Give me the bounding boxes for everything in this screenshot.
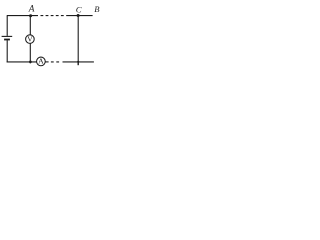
ammeter U2 circle xyxy=(37,57,46,66)
wire slider C lower stub xyxy=(77,61,79,65)
node dot bottom junction xyxy=(29,61,32,64)
wire bottom right solid xyxy=(63,61,94,63)
wire top dashed A-C xyxy=(41,15,65,17)
battery cell long plate xyxy=(2,35,13,37)
wire stub right of ammeter xyxy=(45,61,48,63)
wire left vertical lower xyxy=(6,40,8,62)
svg-text:B: B xyxy=(94,4,100,14)
svg-text:A: A xyxy=(38,57,44,66)
battery cell short plate xyxy=(4,39,10,41)
wire voltmeter stem lower xyxy=(29,43,31,63)
node dot at C xyxy=(77,14,80,17)
wire voltmeter stem upper xyxy=(29,16,31,35)
svg-text:A: A xyxy=(28,5,35,15)
voltmeter U1 circle xyxy=(26,35,35,44)
wire bottom dashed xyxy=(51,61,60,63)
wire slider C vertical xyxy=(77,16,79,62)
wire bottom left horizontal xyxy=(7,61,37,63)
node dot at A xyxy=(29,14,32,17)
svg-text:C: C xyxy=(76,5,82,15)
wire top right solid to B xyxy=(66,15,92,17)
svg-text:V: V xyxy=(27,34,33,43)
wire top left horizontal xyxy=(7,15,38,17)
node dot at C bottom crossing xyxy=(77,61,79,63)
circuit schematic: battery, voltmeter V, ammeter A, slide wire A-C-B xyxy=(0,0,104,73)
wire left vertical upper xyxy=(6,16,8,36)
